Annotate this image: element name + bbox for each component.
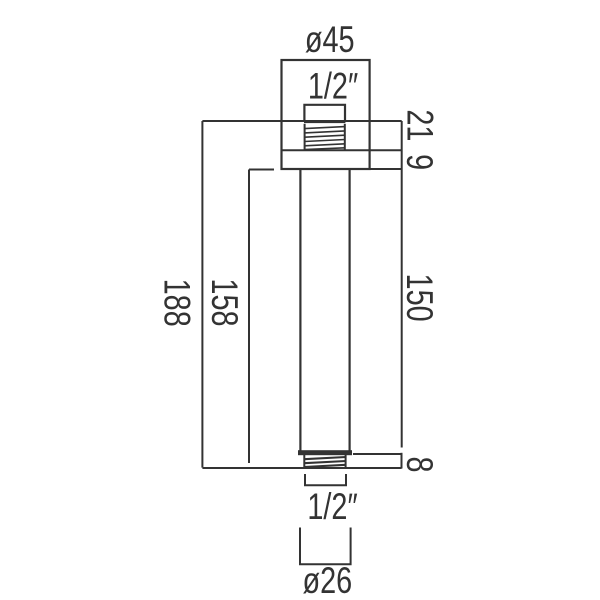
right dimension line (21/9/150) — [401, 121, 403, 448]
1/2 inch bracket under threads — [305, 474, 346, 485]
dimension text 1/2 inch (top) — [308, 66, 359, 107]
svg-text:ø26: ø26 — [302, 561, 352, 600]
extension line at thread top (y=121) from 188-dim to 21-dim — [202, 120, 401, 122]
pipe right edge — [349, 169, 351, 451]
dimension text 8 — [398, 456, 439, 472]
dimension text ø45 — [305, 20, 355, 61]
extension from flange bottom to right dim line (y=169) — [370, 168, 402, 170]
svg-text:1/2″: 1/2″ — [307, 487, 358, 528]
shoulder ring at pipe bottom — [298, 450, 352, 455]
right dimension line lower segment (8) — [401, 453, 403, 469]
svg-text:1/2″: 1/2″ — [308, 66, 359, 107]
svg-text:9: 9 — [398, 154, 439, 170]
threaded nipple upper body — [304, 105, 345, 121]
158 dimension line — [249, 170, 274, 464]
pipe left edge — [299, 169, 301, 451]
dimension text 150 — [398, 274, 439, 322]
extension line at shoulder (y=454.6) to 8-dim — [353, 453, 402, 455]
top thread section — [304, 120, 345, 150]
188 dimension line — [201, 121, 203, 468]
svg-text:21: 21 — [398, 109, 439, 141]
bottom line at thread end (y=467.6) across from 188-dim to 8-dim — [202, 467, 401, 469]
dimension text 158 — [203, 278, 244, 326]
svg-text:ø45: ø45 — [305, 20, 355, 61]
dimension text ø26 — [302, 561, 352, 600]
svg-text:188: 188 — [156, 279, 197, 327]
dimension text 21 — [398, 109, 439, 141]
ø26 bracket — [300, 528, 351, 565]
dimension text 1/2 inch (bottom) — [307, 487, 358, 528]
svg-text:8: 8 — [398, 456, 439, 472]
flange inner line + right extension (y=150.3) — [282, 149, 402, 151]
svg-text:150: 150 — [398, 274, 439, 322]
dimension text 9 — [398, 154, 439, 170]
svg-text:158: 158 — [203, 278, 244, 326]
flange (ceiling plate) outline — [282, 60, 370, 169]
dimension text 188 — [156, 279, 197, 327]
bottom thread section — [304, 455, 346, 468]
